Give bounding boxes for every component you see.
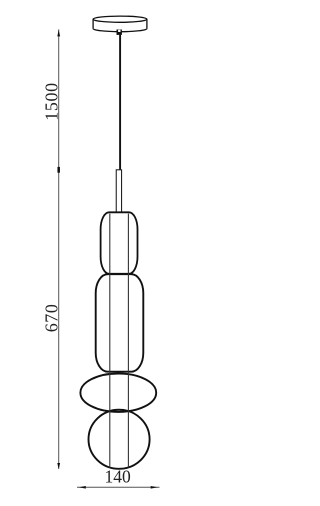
svg-text:1500: 1500 (41, 82, 61, 120)
svg-text:670: 670 (41, 303, 61, 332)
svg-text:140: 140 (104, 466, 131, 486)
